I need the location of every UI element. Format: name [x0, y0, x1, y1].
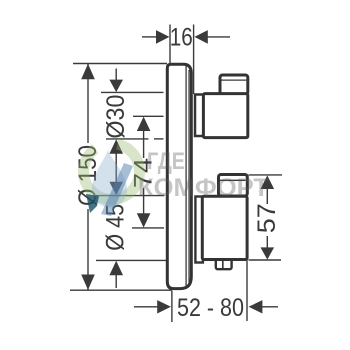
- dimension D45 upper arrow (pointing down): [109, 182, 123, 196]
- bottom knob flange: [195, 197, 203, 263]
- dimension D45 bottom extension line: [96, 259, 168, 261]
- bottom knob body: [202, 196, 247, 259]
- dimension D30 top extension line: [101, 91, 164, 93]
- dimension 52-80 right arrow: [249, 300, 263, 313]
- dimension 74 bottom extension line: [132, 227, 164, 229]
- dimension D30 label: [102, 95, 130, 139]
- dimension D30 upper arrow (pointing down): [115, 69, 117, 82]
- plate rim inner line: [188, 70, 190, 284]
- dimension 57 down arrow: [266, 236, 268, 249]
- dimension 57 top extension line: [249, 174, 283, 176]
- dimension 57 label: [253, 203, 281, 233]
- dimension D45 label: [102, 204, 130, 251]
- top knob flange: [195, 95, 204, 137]
- dimension D150 up arrow: [81, 64, 95, 79]
- svg-text:КОМФОРТ: КОМФОРТ: [138, 174, 269, 202]
- dimension 16 left arrow: [142, 36, 157, 38]
- dimension 52-80 left arrow: [134, 306, 158, 308]
- bottom knob cap: [219, 175, 248, 197]
- watermark logo blue drop: [92, 150, 127, 208]
- dimension 74 label: [130, 158, 158, 188]
- dimension D45 top extension line: [96, 195, 164, 197]
- dimension D45 lower arrow (pointing up): [109, 261, 123, 276]
- dimension D30 lower arrow (pointing up): [109, 139, 123, 154]
- watermark logo swoosh: [101, 163, 133, 216]
- dimension 74 down arrow: [143, 188, 145, 215]
- svg-text:Ø30: Ø30: [102, 95, 130, 139]
- dimension 16 left extension line: [169, 25, 171, 64]
- dimension D150 label: [74, 145, 102, 206]
- dimension 16 right arrow: [194, 30, 207, 44]
- dimension 16 right extension line: [193, 25, 195, 95]
- bottom knob cap inner line: [220, 179, 246, 181]
- svg-text:57: 57: [253, 203, 281, 233]
- top knob cap inner line: [222, 79, 247, 81]
- dimension D150 bottom extension line: [70, 289, 172, 291]
- top knob cap: [220, 75, 248, 95]
- dimension D30 bottom extension line: [106, 138, 149, 140]
- bottom knob tab divider: [222, 259, 224, 269]
- svg-text:ГДЕ: ГДЕ: [147, 148, 185, 175]
- dimension 74 up arrow: [137, 117, 151, 131]
- dimension 57 up arrow: [261, 175, 275, 189]
- svg-text:52 - 80: 52 - 80: [177, 294, 244, 322]
- dimension D150 top extension line: [73, 63, 167, 65]
- dimension 74 top extension line: [133, 115, 164, 117]
- dimension 52-80 left extension line: [171, 291, 173, 322]
- dimension 57 bottom extension line: [249, 259, 282, 261]
- watermark logo green ring: [84, 144, 140, 199]
- bottom knob tab: [216, 258, 232, 269]
- svg-text:16: 16: [170, 24, 193, 52]
- escutcheon plate: [167, 64, 191, 288]
- dimension 52-80 right extension line: [246, 260, 248, 321]
- plate front face line: [185, 66, 187, 287]
- dimension D150 line: [87, 64, 89, 144]
- top knob body: [203, 94, 247, 138]
- watermark logo teal accent: [86, 194, 99, 213]
- dimension D150 down arrow: [81, 275, 95, 290]
- watermark: [84, 144, 269, 216]
